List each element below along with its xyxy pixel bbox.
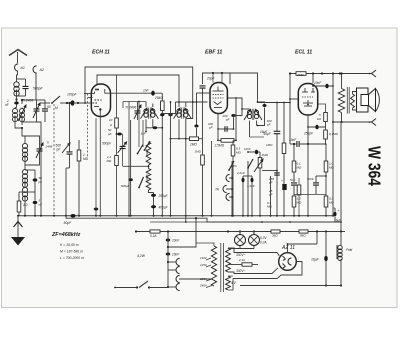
junction (153, 215, 155, 217)
mains prong 4 (176, 283, 180, 290)
junction (270, 215, 272, 217)
junction (325, 215, 327, 217)
svg-text:A2: A2 (39, 68, 44, 72)
wire ECL screen (319, 104, 326, 113)
wire T2 bottom (178, 119, 180, 139)
resistor 25k (161, 101, 165, 111)
capacitor 16uF main (334, 212, 337, 217)
jack bottom (372, 119, 377, 126)
wire T2 tops (178, 102, 180, 107)
EBF11 electrodes (213, 90, 224, 92)
wire right col 333 (332, 74, 334, 216)
resistor sec (242, 263, 252, 266)
svg-text:20pF: 20pF (206, 77, 216, 81)
svg-text:1MΩ: 1MΩ (262, 153, 269, 157)
svg-text:Ti 2496: Ti 2496 (22, 99, 33, 103)
ECL11 electrodes (302, 91, 308, 93)
wire EBF left (197, 92, 211, 94)
coil L6 (22, 187, 27, 192)
svg-text:500pF: 500pF (121, 184, 130, 188)
resistor col202 (201, 155, 205, 165)
wire top EBF line (203, 73, 231, 84)
lamp 1 (235, 235, 246, 246)
resistor extra (297, 185, 301, 195)
svg-text:1MΩ: 1MΩ (266, 143, 273, 147)
node busB a (261, 221, 263, 223)
svg-text:pF: pF (208, 126, 213, 130)
svg-text:MΩ: MΩ (329, 201, 334, 205)
junction (247, 215, 249, 217)
capacitor 10nF m1 (166, 239, 171, 242)
mains prong 2 (176, 266, 180, 273)
wire TA col (231, 161, 233, 216)
svg-text:88Ω: 88Ω (300, 234, 306, 238)
svg-text:nF: nF (39, 203, 43, 207)
transformer core (220, 243, 222, 292)
wire IF row elbow (162, 102, 175, 114)
svg-text:Δ: Δ (109, 123, 112, 127)
wire mains bus ext (214, 231, 345, 233)
pickup cup TA b (223, 185, 227, 192)
wire T1 tops (145, 102, 147, 108)
svg-text:AZ 11: AZ 11 (281, 245, 295, 251)
svg-text:5nF: 5nF (290, 178, 295, 182)
junction (34, 215, 36, 217)
capacitor 100pF series (71, 100, 75, 105)
wire IF link row (176, 101, 208, 103)
resistor 0.3M (232, 140, 234, 145)
junction (116, 215, 118, 217)
svg-text:W 364: W 364 (365, 146, 385, 186)
capacitor blob EBF grid (194, 125, 198, 128)
resistor 5k (324, 113, 328, 122)
junction (202, 215, 204, 217)
junction (17, 215, 19, 217)
svg-text:0,1MΩ: 0,1MΩ (329, 132, 339, 136)
junction (293, 215, 295, 217)
wire screen lower (116, 128, 118, 156)
svg-text:ECH 11: ECH 11 (92, 50, 110, 56)
wire riser 317 (316, 232, 318, 245)
capacitor 1nF ant (14, 102, 19, 105)
svg-text:500pF: 500pF (33, 87, 44, 91)
svg-text:TA: TA (233, 164, 237, 168)
wire sec bot (228, 268, 278, 274)
wire AZ11 Bplus (287, 244, 289, 253)
svg-text:16μF: 16μF (260, 130, 268, 134)
capacitor 5nF (33, 201, 38, 204)
wire AZ11 out (277, 262, 302, 279)
svg-text:250pF: 250pF (303, 132, 314, 136)
wire gang dash (87, 94, 89, 159)
capacitor blob T1 (146, 127, 162, 129)
svg-text:2,0nF: 2,0nF (236, 171, 245, 175)
coil L3 (20, 109, 25, 114)
svg-text:1,0: 1,0 (23, 203, 28, 207)
wire col 185.8 (185, 119, 187, 223)
wire B+ row (258, 102, 291, 104)
capacitor 50pF b (33, 178, 38, 181)
capacitor 200pF (231, 114, 235, 117)
capacitor 250pF (149, 190, 154, 193)
volume pot 1M (259, 152, 261, 158)
antenna terminal A1 (15, 64, 19, 71)
svg-text:0,2A: 0,2A (260, 241, 267, 245)
svg-text:1MΩ: 1MΩ (190, 143, 197, 147)
antenna terminal A2 (33, 66, 37, 73)
wire jack bottom (333, 121, 372, 123)
wire ECL anode (312, 74, 314, 84)
antenna (9, 50, 27, 56)
svg-text:10nF: 10nF (172, 239, 180, 243)
svg-text:MΩ: MΩ (83, 157, 89, 161)
wire ECH grid left (78, 102, 91, 104)
mains switch (115, 287, 137, 289)
capacitor variable C1 (33, 103, 40, 118)
bus B (66, 216, 341, 222)
resistor 0.1M t (292, 161, 296, 172)
transformer secondary 4V (226, 276, 231, 290)
capacitor 50nF t (313, 183, 319, 185)
resistor 2M (296, 72, 306, 76)
IF transformer T2 (177, 109, 181, 113)
capacitor 500pF blob (128, 178, 133, 181)
resistor 10k screen (115, 118, 119, 128)
svg-text:Ti 2496: Ti 2496 (125, 106, 136, 110)
wire outer loop (85, 67, 193, 103)
svg-text:10nF: 10nF (244, 147, 251, 151)
wire ECH anode (111, 92, 163, 94)
wire az bottom (240, 285, 341, 287)
switch blade TA1 (229, 161, 234, 170)
svg-text:MΩ: MΩ (329, 166, 334, 170)
junction (332, 215, 334, 217)
wire inner loop (97, 75, 179, 102)
wire riser 168 (170, 102, 172, 216)
capacitor 500pF (23, 86, 29, 88)
svg-text:25kΩ: 25kΩ (154, 96, 163, 100)
svg-text:ECL 11: ECL 11 (295, 50, 312, 56)
svg-text:2496: 2496 (45, 145, 53, 149)
resistor 1M t2 (292, 196, 296, 207)
junction (298, 215, 300, 217)
junction (161, 215, 163, 217)
wire col 277 (276, 103, 278, 132)
wire ECH cathode (99, 110, 101, 216)
wire EBF cathode col (217, 113, 219, 140)
resistor 1M grid (171, 138, 190, 140)
switch blade K3 (139, 177, 144, 188)
svg-text:MΩ: MΩ (107, 159, 112, 163)
svg-text:240V: 240V (199, 284, 208, 288)
svg-text:MΩ: MΩ (267, 205, 272, 209)
svg-text:220V: 220V (199, 277, 208, 281)
bus B2 (150, 221, 207, 223)
mains prong 1 (176, 258, 180, 265)
svg-text:2MΩ: 2MΩ (296, 73, 304, 77)
transformer secondary HT (226, 248, 231, 272)
svg-text:330V~: 330V~ (236, 253, 245, 257)
wire col 211.5 (211, 141, 213, 216)
svg-text:6,3V: 6,3V (260, 236, 267, 240)
wire T3 bot (249, 121, 251, 138)
wire ECL anode link (312, 88, 314, 92)
wire vol col (270, 176, 272, 216)
wire AZ11 heater (233, 278, 277, 280)
svg-text:10nF: 10nF (314, 81, 322, 85)
wire sec top (228, 248, 279, 256)
capacitor 1nF (151, 91, 155, 96)
svg-text:2,5MΩ: 2,5MΩ (214, 144, 225, 148)
resistor 1M t (324, 161, 328, 172)
svg-text:2,1A: 2,1A (238, 258, 245, 262)
svg-text:MΩ: MΩ (236, 151, 241, 155)
capacitor 16uF ps (324, 256, 328, 261)
svg-text:K = 15-50 m: K = 15-50 m (60, 243, 79, 247)
resistor 0.2M t2 (324, 196, 328, 207)
svg-text:A1: A1 (20, 66, 25, 70)
junction (170, 215, 172, 217)
trimmer C osc (36, 143, 43, 158)
wire mains elbow (168, 218, 196, 247)
wire tone col up (325, 144, 327, 161)
coil L1 (14, 82, 19, 87)
node ant coil bottom (15, 98, 17, 100)
svg-text:EBF 11: EBF 11 (205, 50, 222, 56)
capacitor blob k2 (94, 208, 99, 211)
junction (232, 215, 234, 217)
svg-text:400pF: 400pF (159, 206, 169, 210)
junction (24, 215, 26, 217)
resistor 88 (299, 230, 308, 233)
junction (40, 215, 42, 217)
svg-text:50: 50 (47, 105, 51, 109)
svg-text:ZF=468kHz: ZF=468kHz (51, 232, 81, 238)
wire var cap bottom (37, 122, 42, 216)
junction (251, 215, 253, 217)
IF transformer T3 (247, 110, 251, 114)
switch blade TA2 (248, 159, 253, 168)
switch blade K2 (145, 141, 151, 150)
capacitor 25uF (282, 184, 286, 190)
capacitor 10nF m2 (166, 253, 171, 256)
trimmer mid (134, 105, 141, 119)
junction (53, 215, 55, 217)
svg-text:50nF: 50nF (307, 177, 314, 181)
wire T2 cap branch (186, 102, 193, 119)
wire ECH col96 (95, 118, 97, 205)
wire screen drop (116, 75, 118, 118)
capacitor 10nF out (297, 141, 299, 147)
svg-text:50μF: 50μF (64, 221, 73, 225)
capacitor 50pF screen (117, 133, 123, 135)
svg-text:pF: pF (266, 123, 271, 127)
speaker (357, 88, 369, 112)
wire mains vert (167, 232, 169, 288)
resistor 36 (271, 230, 280, 233)
wire mid h1 (123, 165, 149, 167)
wire T3 left entry (228, 98, 242, 116)
pickup cup TA c (226, 193, 230, 200)
capacitor 50uF cathode (70, 214, 75, 218)
junction (65, 215, 67, 217)
wire left col (24, 204, 26, 216)
capacitor 400pF (151, 205, 156, 208)
wire osc link (15, 125, 22, 128)
wire band sw (21, 100, 23, 104)
capacitor 50pF (42, 109, 48, 111)
AZ11 electrodes (283, 256, 286, 259)
capacitor 20pF (200, 86, 206, 88)
junction (78, 215, 80, 217)
wire switch shaft (53, 104, 55, 216)
resistor 2.5M (221, 139, 234, 143)
capacitor 2nF (242, 178, 245, 183)
wire osc grid row (123, 101, 146, 103)
lamp 2 (249, 235, 260, 246)
capacitor 1nF ta (251, 178, 254, 183)
capacitor 100pF t3 (258, 102, 265, 104)
resistor 1M col284 (283, 103, 285, 144)
ECH11 electrodes (95, 89, 99, 91)
wire prim top (196, 243, 214, 246)
junction (130, 215, 132, 217)
capacitor 250pF ecl (308, 126, 326, 128)
svg-text:M = 187-580 m: M = 187-580 m (60, 250, 83, 254)
wire 248 col (247, 161, 249, 216)
wire osc frame (25, 136, 40, 140)
junction (231, 215, 233, 217)
resistor 0.1M ecl (324, 130, 328, 139)
svg-text:pF: pF (107, 132, 112, 136)
wire ECL top line (290, 73, 372, 75)
wire lamp bottom (228, 248, 254, 250)
capacitor 16uF ebf (274, 131, 281, 133)
wire ECL grid (290, 98, 298, 100)
IF transformer T1 (144, 109, 148, 113)
junction (276, 215, 278, 217)
switch blade K1 (138, 145, 144, 154)
field coil (336, 245, 338, 259)
bus C mains (136, 231, 214, 233)
svg-text:10: 10 (109, 118, 113, 122)
svg-text:10nF: 10nF (289, 138, 297, 142)
capacitor 5nF t (291, 183, 297, 185)
capacitor 10nF ebf (248, 151, 260, 153)
svg-text:250pF: 250pF (158, 194, 169, 198)
resistor 1k (17, 201, 21, 212)
svg-text:+: + (281, 179, 283, 183)
node busB b (289, 221, 291, 223)
coil L4 osc (22, 143, 27, 148)
svg-text:L = 700-2000 m: L = 700-2000 m (60, 256, 84, 260)
pickup cup TA a (226, 174, 230, 181)
coil L2 (13, 109, 18, 114)
jack top (372, 70, 377, 77)
svg-text:10nF: 10nF (172, 253, 180, 257)
switch S1 (40, 102, 50, 104)
wire 4V bottom (228, 279, 233, 291)
wire T3 top right (230, 73, 258, 102)
junction (95, 215, 97, 217)
junction (128, 215, 130, 217)
svg-text:36Ω: 36Ω (272, 234, 278, 238)
junction (99, 215, 101, 217)
resistor 1.2M (115, 156, 119, 166)
junction (259, 215, 261, 217)
junction (211, 215, 213, 217)
capacitor 10nF ecl (313, 85, 333, 87)
resistor 1M osc (77, 150, 81, 161)
node grid line (66, 102, 68, 104)
svg-text:1nF: 1nF (141, 132, 146, 136)
tube AZ11 (279, 253, 297, 271)
svg-text:3060: 3060 (145, 149, 149, 156)
tube ECL11 (298, 84, 317, 116)
svg-text:1MΩ: 1MΩ (195, 150, 202, 154)
ground bus (18, 215, 334, 217)
svg-text:3060: 3060 (145, 174, 149, 181)
svg-text:4,2W: 4,2W (137, 254, 146, 258)
capacitor 250pF col277 (274, 173, 280, 175)
svg-text:500pF: 500pF (102, 142, 112, 146)
svg-text:100pF: 100pF (67, 93, 78, 97)
svg-text:MΩ: MΩ (297, 166, 302, 170)
svg-text:MΩ: MΩ (297, 201, 302, 205)
svg-text:pF: pF (225, 118, 230, 122)
junction (283, 215, 285, 217)
junction (242, 215, 244, 217)
wire mid risers (138, 102, 140, 148)
mains prong 3 (176, 275, 180, 282)
tube EBF11 (210, 83, 227, 114)
volume pot arrow (254, 159, 263, 172)
wire EBF grid col low (196, 128, 198, 136)
wire right col 341 (340, 122, 342, 232)
junction (185, 215, 187, 217)
svg-text:M: M (55, 106, 58, 110)
wire T1 bottom (145, 119, 147, 131)
svg-text:pF: pF (38, 180, 43, 184)
coil 3060 a (146, 142, 151, 165)
node grid2 (77, 102, 79, 104)
svg-text:330V~: 330V~ (236, 269, 245, 273)
junction (307, 215, 309, 217)
transformer primary (211, 246, 216, 286)
coil L5 (22, 169, 27, 174)
svg-text:TA: TA (215, 188, 219, 192)
svg-text:Feld: Feld (346, 248, 352, 252)
wire ecl col (307, 144, 309, 216)
output transformer (338, 89, 344, 113)
fuse 0.1A (150, 230, 160, 233)
svg-text:0,1A: 0,1A (150, 234, 157, 238)
ground symbol (17, 216, 19, 237)
coil 3060 b (146, 169, 151, 191)
wire antenna stem (17, 52, 19, 63)
tube ECH11 (91, 84, 110, 117)
svg-text:+: + (338, 209, 340, 213)
svg-text:16μF: 16μF (311, 258, 320, 262)
